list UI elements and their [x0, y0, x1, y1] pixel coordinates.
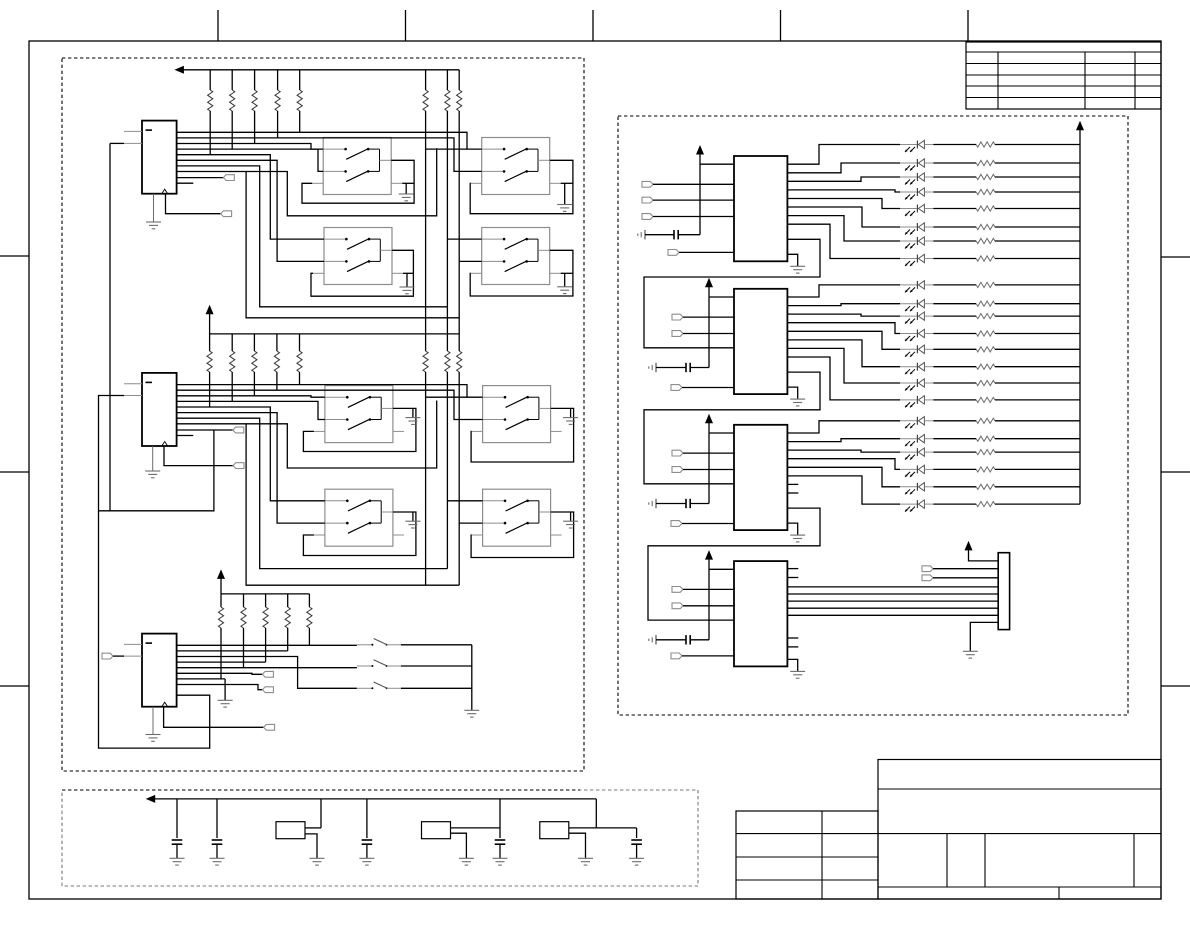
- resistor R62: [243, 594, 245, 607]
- wire U3 bottom to flag: [164, 707, 264, 728]
- title block main: [878, 760, 1161, 900]
- wire U6 pin5 to LED: [787, 467, 900, 487]
- ground SW1: [402, 182, 414, 184]
- ground U4: [787, 254, 797, 266]
- wire U1 p8 branch: [246, 148, 437, 216]
- wire U5 pin3 to LED: [787, 314, 900, 316]
- wire flag to U4: [653, 199, 734, 201]
- wire FB2 upper: [451, 827, 501, 829]
- net flag D32: [672, 467, 683, 473]
- pin stub U2 left 1: [124, 383, 142, 385]
- wire U3 p5 to SW10: [177, 667, 357, 669]
- pin stub U3 left 1: [124, 643, 142, 645]
- wire U6 pin2 to LED: [787, 439, 900, 442]
- IC U6: [734, 425, 787, 530]
- wire U4 pin6 to LED: [787, 207, 900, 227]
- wire SW4 in2 tap: [459, 260, 482, 262]
- wire U6 pin7 stub: [787, 483, 798, 485]
- ground FB3: [578, 857, 593, 859]
- resistor R11: [209, 70, 211, 90]
- capacitor C5: [176, 799, 178, 838]
- resistor R122: [933, 503, 976, 505]
- ground U6: [787, 523, 797, 535]
- wire VCC to J1: [969, 550, 999, 561]
- wire chain U6 to U7: [648, 508, 820, 620]
- title block left table: [736, 811, 878, 899]
- net flag D42: [672, 603, 683, 609]
- wire U2 p6 to SW7 in2: [177, 413, 325, 523]
- wire J1 ground: [970, 622, 998, 651]
- wire flag to U5 lower: [682, 387, 734, 389]
- resistor R12: [231, 70, 233, 90]
- wire output loop SW6: [471, 408, 573, 462]
- wire feedback horizontal: [99, 430, 214, 511]
- border tick top 2: [405, 10, 407, 41]
- IC U2: [142, 373, 177, 446]
- hierarchical sheet box left: [62, 58, 584, 771]
- power flag VCC U5: [705, 278, 713, 288]
- resistor R21: [425, 70, 427, 90]
- LED D17: [900, 420, 917, 422]
- wire U7 pin stub 4: [787, 646, 798, 648]
- capacitor C1: [644, 230, 646, 239]
- IC U7: [734, 561, 787, 666]
- resistor R52: [231, 334, 233, 351]
- net flag F1: [922, 566, 933, 572]
- LED D14: [900, 366, 917, 368]
- LED D2: [900, 162, 917, 164]
- wire U7 bus 5: [787, 614, 998, 616]
- wire output loop SW7: [303, 512, 416, 556]
- resistor R108: [933, 258, 976, 260]
- resistor R101: [933, 144, 976, 146]
- border tick left 2: [0, 471, 29, 473]
- wire U7 bus 1: [787, 586, 998, 588]
- LED D3: [900, 176, 917, 178]
- wire U1 feedback: [109, 143, 111, 510]
- wire U2 p8 to SW8 in2: [177, 424, 460, 585]
- wire flag to U6 lower: [682, 523, 734, 525]
- resistor R14: [277, 70, 279, 90]
- wire VCC stem U5: [708, 286, 710, 367]
- wire U4 pin7 to LED: [787, 216, 900, 241]
- resistor R103: [933, 176, 976, 178]
- connector J1: [998, 553, 1009, 630]
- LED D4: [900, 191, 917, 193]
- LED D1: [900, 144, 917, 146]
- resistor R64: [287, 594, 289, 607]
- wire U7 pin stub 2: [787, 577, 798, 579]
- resistor R23: [458, 70, 460, 90]
- wire U2 pin9 to flag: [177, 429, 233, 431]
- wire SW9 to ground bus: [401, 644, 472, 646]
- resistor R32: [445, 351, 450, 372]
- wire U7 bus 4: [787, 607, 998, 609]
- wire U5 pin2 to LED: [787, 304, 900, 306]
- net flag F2: [922, 575, 933, 581]
- resistor R106: [933, 226, 976, 228]
- net flag D12: [642, 197, 653, 203]
- wire flag to U4: [653, 183, 734, 185]
- wire U4 pin1 to LED: [787, 145, 900, 165]
- ground U3: [152, 707, 154, 734]
- wire VCC rail top: [183, 69, 459, 71]
- wire output loop SW1: [302, 160, 414, 203]
- ground C7: [359, 857, 374, 859]
- IC U3: [142, 634, 177, 707]
- resistor R104: [933, 191, 976, 193]
- wire U4 pin5 to LED: [787, 199, 900, 209]
- resistor R117: [933, 420, 976, 422]
- resistor R114: [933, 366, 976, 368]
- resistor R107: [933, 240, 976, 242]
- power flag VCC U4: [696, 145, 704, 155]
- wire flag to U6: [683, 452, 734, 454]
- wire U3 p2 pullup: [177, 650, 288, 652]
- ground C5: [170, 857, 185, 859]
- wire U1 p8 to SW4 in2: [177, 172, 460, 318]
- wire U2 feedback: [99, 396, 210, 749]
- capacitor C7: [366, 799, 368, 838]
- wire chain U4 to U5: [644, 239, 820, 347]
- resistor R111: [933, 315, 976, 317]
- analog switch SW6: [483, 386, 551, 443]
- resistor R51: [209, 334, 211, 351]
- ground switch bus: [464, 709, 479, 711]
- power flag VCC U7: [705, 550, 713, 560]
- resistor R113: [933, 348, 976, 350]
- ground SW4: [561, 272, 573, 274]
- wire U7 bus 2: [787, 593, 998, 595]
- resistor R105: [933, 208, 976, 210]
- resistor R65: [308, 594, 310, 607]
- wire U7 pin stub 1: [787, 568, 798, 570]
- resistor R110: [933, 303, 976, 305]
- wire SW2 in1 tap: [426, 148, 467, 150]
- wire U3 p4 pullup: [177, 661, 266, 663]
- LED D15: [900, 382, 917, 384]
- wire U3 p8 to flag: [177, 685, 263, 690]
- LED D12: [900, 333, 917, 335]
- pin stub U1 left 1: [124, 130, 142, 132]
- LED D21: [900, 486, 917, 488]
- ground C6: [210, 857, 225, 859]
- wire chain U5 to U6: [644, 372, 820, 484]
- wire FB1 upper: [305, 827, 321, 829]
- capacitor C8: [499, 799, 501, 838]
- wire VCC stem U7: [708, 559, 710, 640]
- net flag E1: [668, 250, 679, 256]
- LED D16: [900, 399, 917, 401]
- ground FB2: [459, 857, 474, 859]
- wire output loop SW8: [471, 512, 573, 558]
- wire U1 bottom to flag: [166, 194, 221, 214]
- resistor R116: [933, 399, 976, 401]
- resistor R63: [265, 594, 267, 607]
- wire U3 p1 to SW9: [177, 644, 357, 646]
- wire VCC rail bottom box: [154, 798, 596, 800]
- wire U3 p7 pullup: [177, 678, 226, 680]
- wire FB3 upper: [569, 827, 637, 829]
- resistor R112: [933, 333, 976, 335]
- wire SW4 in1 tap: [447, 238, 481, 240]
- wire SW8 in2 tap: [459, 522, 482, 524]
- capacitor C3: [655, 499, 657, 508]
- LED D7: [900, 240, 917, 242]
- net flag D11: [642, 181, 653, 187]
- ground SW5: [412, 408, 414, 417]
- wire U1 pin9 to flag: [177, 177, 224, 179]
- wire VCC stem U4: [699, 154, 701, 235]
- wire U5 pin6 to LED: [787, 340, 900, 367]
- wire U6 pin3 to LED: [787, 450, 900, 452]
- wire U3 p6 to flag: [177, 673, 263, 674]
- resistor R120: [933, 468, 976, 470]
- wire U5 pin7 to LED: [787, 348, 900, 383]
- ground FB1: [310, 857, 325, 859]
- ground U7: [787, 659, 797, 671]
- power flag VCC bottom: [217, 569, 225, 579]
- net flag D41: [672, 587, 683, 593]
- net flag B1: [233, 463, 244, 469]
- wire VCC stem U6: [708, 422, 710, 503]
- LED D20: [900, 468, 917, 470]
- IC U5: [734, 289, 787, 394]
- LED D6: [900, 226, 917, 228]
- wire output loop SW2: [470, 160, 573, 213]
- wire SW8 in1 tap: [447, 500, 482, 502]
- analog switch SW2: [482, 138, 550, 195]
- power flag VCC bottom box: [146, 795, 156, 803]
- hierarchical sheet box right: [618, 116, 1128, 715]
- LED D19: [900, 451, 917, 453]
- wire U6 pin4 to LED: [787, 459, 900, 470]
- wire U2 p1 to SW6 in1: [177, 385, 483, 398]
- wire U2 p2 to SW6 in2: [177, 390, 483, 419]
- ground C8: [493, 857, 508, 859]
- pin stub U1 left 2: [124, 142, 142, 144]
- wire U7 pin stub 3: [787, 637, 798, 639]
- wire FB2 lower to ground: [451, 833, 467, 858]
- analog switch SW5: [325, 386, 393, 443]
- wire U1 p7 to SW4 in1: [177, 166, 448, 307]
- wire VCC rail bottom: [220, 578, 222, 594]
- wire U4 pin3 to LED: [787, 177, 900, 181]
- wire U2 p4 to SW5 in2: [177, 401, 325, 419]
- capacitor C2: [655, 363, 657, 372]
- ground U2: [152, 446, 154, 471]
- wire flag to U6: [683, 469, 734, 471]
- resistor R119: [933, 451, 976, 453]
- resistor R61: [220, 594, 222, 607]
- wire FB3 lower to ground: [569, 833, 586, 858]
- wire U2 pin10 stub: [177, 435, 194, 437]
- wire U2 p7 to SW8 in1: [177, 418, 448, 568]
- ground SW3: [403, 272, 413, 274]
- wire SW6 in1 tap: [426, 396, 467, 398]
- wire U2 bottom to flag: [164, 446, 233, 466]
- net flag C1: [102, 653, 113, 659]
- LED D5: [900, 208, 917, 210]
- net flag C2: [264, 724, 275, 730]
- wire flag to U7: [683, 605, 734, 607]
- ground U5: [787, 387, 797, 399]
- wire flag to U7 lower: [682, 655, 734, 657]
- LED D11: [900, 315, 917, 317]
- switch SW9: [357, 644, 373, 646]
- analog switch SW7: [325, 489, 393, 546]
- wire U1 pin10 stub: [177, 182, 194, 184]
- net flag B2: [233, 427, 244, 433]
- ground U1: [153, 194, 155, 222]
- wire flag to U4 lower: [679, 251, 734, 253]
- wire U2 p5 to SW7 in1: [177, 407, 325, 501]
- wire flag to U7: [683, 588, 734, 590]
- border tick top 3: [592, 10, 594, 41]
- ground C9: [629, 857, 644, 859]
- power flag VCC J1: [965, 541, 973, 551]
- wire U4 pin8 to LED: [787, 224, 900, 258]
- wire U5 pin1 to LED: [787, 285, 900, 297]
- wire U1 p4 to SW1 in2: [177, 149, 324, 171]
- ground SW6: [570, 408, 572, 417]
- wire output loop SW5: [303, 408, 416, 451]
- analog switch SW3: [324, 228, 392, 285]
- resistor R13: [254, 70, 256, 90]
- switch SW11: [357, 687, 373, 689]
- net flag C3: [262, 671, 273, 677]
- wire output loop SW3: [311, 250, 413, 296]
- net flag D22: [672, 331, 683, 337]
- wire LED anode rail: [1079, 129, 1081, 504]
- LED D9: [900, 284, 917, 286]
- resistor R115: [933, 382, 976, 384]
- wire U4 pin4 to LED: [787, 190, 900, 192]
- component FB2: [422, 822, 451, 839]
- component FB1: [276, 822, 305, 839]
- net flag A1: [221, 211, 232, 217]
- LED D22: [900, 503, 917, 505]
- wire U1 p2 to SW2 in2: [177, 138, 482, 172]
- net flag D13: [642, 214, 653, 220]
- IC U1: [142, 121, 177, 194]
- analog switch SW1: [323, 138, 391, 195]
- resistor R109: [933, 284, 976, 286]
- wire output loop SW4: [470, 250, 573, 296]
- hierarchical sheet box bottom: [62, 790, 698, 886]
- wire U5 pin4 to LED: [787, 323, 900, 334]
- component FB3: [540, 822, 569, 839]
- resistor R33: [457, 351, 462, 372]
- border tick top 5: [967, 10, 969, 41]
- wire flag to U4: [653, 216, 734, 218]
- pin stub U2 left 2: [124, 395, 142, 397]
- ground SW2: [561, 182, 573, 184]
- resistor R22: [446, 70, 448, 90]
- border tick left 3: [0, 685, 29, 687]
- revision table: [966, 42, 1161, 109]
- wire flag F1 to J1: [933, 568, 998, 570]
- wire U6 pin6 to LED: [787, 476, 900, 504]
- resistor R55: [299, 334, 301, 351]
- analog switch SW4: [482, 228, 550, 285]
- wire SW11 to ground bus: [401, 687, 472, 689]
- net flag E3: [671, 521, 682, 527]
- wire U6 pin1 to LED: [787, 421, 900, 433]
- border tick left 1: [0, 255, 29, 257]
- capacitor C9: [636, 828, 638, 838]
- LED D13: [900, 348, 917, 350]
- wire flag to U5: [683, 316, 734, 318]
- wire flag to U5: [683, 333, 734, 335]
- net flag A2: [223, 175, 234, 181]
- net flag E2: [671, 385, 682, 391]
- analog switch SW8: [483, 489, 551, 546]
- resistor R102: [933, 162, 976, 164]
- wire SW10 to ground bus: [401, 665, 472, 667]
- wire flag F2 to J1: [933, 577, 998, 579]
- resistor R121: [933, 486, 976, 488]
- wire U2 p3 to SW5 in1: [177, 396, 325, 397]
- capacitor C6: [216, 799, 218, 838]
- power flag VCC U6: [705, 414, 713, 424]
- ground SW8: [570, 512, 572, 521]
- resistor R54: [276, 334, 278, 351]
- wire U3 p3 to SW11: [177, 657, 357, 689]
- capacitor C4: [655, 635, 657, 644]
- resistor R31: [423, 351, 428, 372]
- LED D10: [900, 303, 917, 305]
- wire ground bus: [471, 645, 473, 710]
- border tick top 1: [217, 10, 219, 41]
- wire U1 p6 to SW3 in2: [177, 160, 324, 261]
- net flag D21: [672, 314, 683, 320]
- ground J1: [963, 650, 978, 652]
- power flag VCC middle: [206, 305, 214, 315]
- resistor R53: [253, 334, 255, 351]
- wire U1 p5 to SW3 in1: [177, 155, 324, 239]
- switch SW10: [357, 665, 373, 667]
- wire U2 p8 branch: [246, 401, 437, 469]
- wire U5 pin8 to LED: [787, 357, 900, 400]
- wire U4 pin2 to LED: [787, 163, 900, 173]
- wire U5 pin5 to LED: [787, 331, 900, 349]
- wire flag C1 to U3: [113, 655, 124, 657]
- wire U7 bus 3: [787, 600, 998, 602]
- net flag C4: [262, 687, 273, 693]
- wire VCC rail middle: [209, 313, 211, 334]
- border tick top 4: [780, 10, 782, 41]
- power flag VCC top-left: [174, 66, 184, 74]
- ground SW7: [412, 512, 414, 521]
- wire U1 p1 to SW2 in1: [177, 132, 482, 149]
- IC U4: [734, 156, 787, 261]
- wire U1 p3 to SW1 in1: [177, 144, 324, 150]
- wire U6 pin8 stub: [787, 492, 798, 494]
- wire FB1 lower to ground: [305, 834, 317, 858]
- net flag E4: [671, 653, 682, 659]
- border tick right 2: [1161, 471, 1190, 473]
- net flag D31: [672, 450, 683, 456]
- power flag VCC LED rail: [1076, 121, 1084, 131]
- resistor R118: [933, 438, 976, 440]
- LED D8: [900, 258, 917, 260]
- resistor R15: [299, 70, 301, 90]
- border tick right 3: [1161, 685, 1190, 687]
- border tick right 1: [1161, 256, 1190, 258]
- LED D18: [900, 438, 917, 440]
- ground net bottom: [224, 679, 226, 700]
